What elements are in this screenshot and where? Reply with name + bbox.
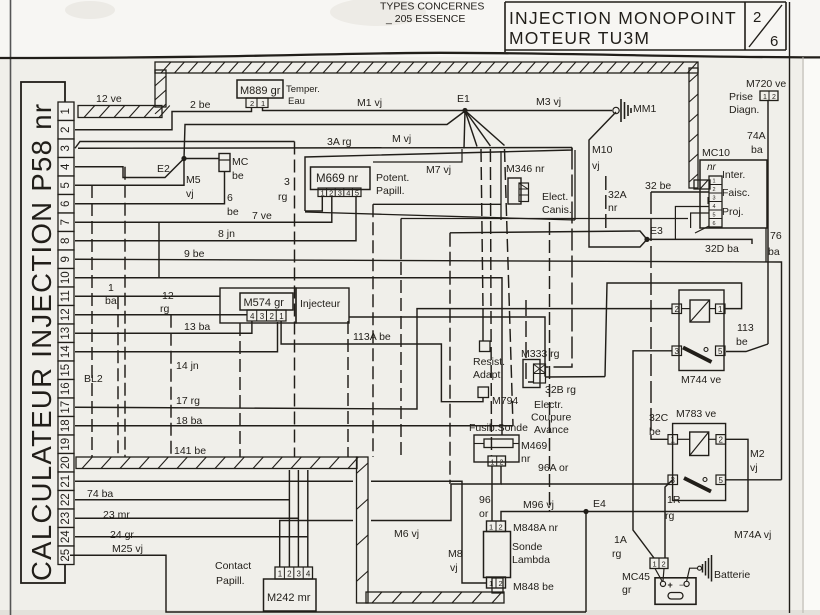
wire M1 vj M889 to E1 xyxy=(263,97,465,111)
svg-text:18: 18 xyxy=(60,419,72,432)
battery xyxy=(655,578,696,605)
wire 32D ba xyxy=(647,239,752,255)
thermal contact MC xyxy=(219,154,249,183)
wire 6 be MC to pin6 xyxy=(75,172,239,219)
crossing vertical x373 xyxy=(372,204,374,457)
wire M6 vj xyxy=(280,484,451,567)
svg-text:vj: vj xyxy=(750,462,758,474)
svg-text:4: 4 xyxy=(713,204,716,210)
svg-text:M848 be: M848 be xyxy=(513,581,554,593)
E1 fan wires xyxy=(464,111,505,149)
svg-text:32A: 32A xyxy=(608,189,627,201)
svg-text:1: 1 xyxy=(718,305,723,314)
wire 7 ve pin7 to M669 pin2 xyxy=(75,196,332,222)
M574 pin row xyxy=(247,310,286,321)
diagnostic socket M720 xyxy=(729,78,786,116)
svg-text:Potent.: Potent. xyxy=(376,172,409,184)
svg-text:Lambda: Lambda xyxy=(512,554,550,566)
title box xyxy=(505,2,786,52)
wire M744 pin1 to 32B xyxy=(605,283,742,377)
svg-text:19: 19 xyxy=(60,438,72,451)
wires MC45 to battery plus xyxy=(655,569,664,582)
wire 32 be xyxy=(645,180,709,192)
svg-text:96A or: 96A or xyxy=(538,462,569,474)
svg-text:2: 2 xyxy=(662,560,666,569)
svg-text:Canis.: Canis. xyxy=(542,204,572,216)
svg-text:24 gr: 24 gr xyxy=(110,529,134,541)
svg-text:1: 1 xyxy=(261,99,265,108)
relay M783 box xyxy=(673,424,726,501)
svg-text:2: 2 xyxy=(719,435,724,444)
svg-text:M744 ve: M744 ve xyxy=(681,374,721,386)
svg-text:2: 2 xyxy=(500,459,504,466)
svg-text:3: 3 xyxy=(713,196,716,202)
svg-text:M vj: M vj xyxy=(392,133,411,145)
svg-text:11: 11 xyxy=(60,290,72,302)
svg-text:Prise: Prise xyxy=(729,91,753,103)
M242 pin row xyxy=(275,567,313,579)
svg-text:nr: nr xyxy=(521,453,531,465)
svg-text:rg: rg xyxy=(278,191,287,203)
svg-text:1: 1 xyxy=(489,523,493,532)
ECU calculateur body box xyxy=(21,82,65,583)
svg-text:nr: nr xyxy=(707,162,717,173)
wire 9 be pin9 long run xyxy=(75,248,782,480)
crossing vertical x549 xyxy=(549,222,551,511)
svg-text:M783 ve: M783 ve xyxy=(676,408,716,420)
ground bus bottom horizontal to M848 xyxy=(366,578,504,603)
svg-text:nr: nr xyxy=(608,202,618,214)
ground MM1 xyxy=(613,99,657,122)
svg-text:Adapt.: Adapt. xyxy=(473,369,503,381)
svg-text:17: 17 xyxy=(60,401,72,414)
wire 3A rg pin3 run xyxy=(75,133,572,148)
wire M25 vj pin25 bottom run xyxy=(70,543,586,612)
resistor adaptation xyxy=(473,341,518,407)
svg-text:M848A nr: M848A nr xyxy=(513,522,558,534)
label 1A rg xyxy=(612,534,627,560)
potentiometer M669 xyxy=(311,167,371,190)
svg-text:14 jn: 14 jn xyxy=(176,360,199,372)
relay M744 pin2 xyxy=(672,304,682,314)
throttle switch M242 xyxy=(215,560,316,611)
svg-text:20: 20 xyxy=(60,456,72,469)
svg-text:M469: M469 xyxy=(521,440,547,452)
svg-text:1: 1 xyxy=(279,312,284,321)
svg-text:M25 vj: M25 vj xyxy=(112,543,143,555)
top ground bus horizontal xyxy=(155,62,698,73)
svg-text:2: 2 xyxy=(499,579,503,588)
label 32C be xyxy=(649,412,669,438)
ECU connector pin strip 1-25 xyxy=(58,102,74,565)
crossing wire vertical x171 xyxy=(170,315,172,457)
svg-text:M242 mr: M242 mr xyxy=(267,592,311,604)
svg-text:1: 1 xyxy=(713,179,716,185)
wire 23 mr pin23 to M242 pin3 xyxy=(75,470,298,567)
svg-text:M74A vj: M74A vj xyxy=(734,529,771,541)
svg-text:rg: rg xyxy=(665,510,674,522)
svg-text:M333 rg: M333 rg xyxy=(521,348,560,360)
top ground bus right vertical drop to MC10 xyxy=(689,68,710,189)
svg-text:+: + xyxy=(668,580,673,590)
svg-text:1: 1 xyxy=(489,579,493,588)
ECU label CALCULATEUR INJECTION P58 nr xyxy=(26,103,57,581)
wire pin4 to E2 xyxy=(75,159,184,178)
wire 24 gr pin24 to M242 pin4 xyxy=(75,470,308,567)
svg-text:Avance: Avance xyxy=(534,424,569,436)
svg-text:M2: M2 xyxy=(750,448,765,460)
svg-text:6: 6 xyxy=(227,192,233,204)
enclosure box potentiometer-canister xyxy=(305,148,575,221)
wire 12 rg pin12 to injector xyxy=(75,290,247,315)
svg-text:Contact: Contact xyxy=(215,560,251,572)
svg-text:ba: ba xyxy=(105,295,117,307)
svg-text:12: 12 xyxy=(60,308,72,321)
svg-text:M1 vj: M1 vj xyxy=(357,97,382,109)
svg-text:23 mr: 23 mr xyxy=(103,509,130,521)
svg-text:3: 3 xyxy=(260,312,265,321)
wire M333 lower pin feed xyxy=(526,300,534,382)
wire 8 jn pin8 to M669 pin5 xyxy=(75,196,356,241)
wire pin3 riser to M333 xyxy=(545,148,572,368)
svg-text:2: 2 xyxy=(772,94,776,101)
svg-text:2: 2 xyxy=(270,312,275,321)
svg-text:32 be: 32 be xyxy=(645,180,671,192)
page left border xyxy=(10,0,12,615)
labels Potent Papill xyxy=(376,172,409,197)
svg-text:13 ba: 13 ba xyxy=(184,321,210,333)
svg-text:1: 1 xyxy=(491,459,495,466)
svg-text:8: 8 xyxy=(60,238,72,244)
svg-text:9 be: 9 be xyxy=(184,248,205,260)
node E4 xyxy=(583,498,606,514)
svg-text:Temper.: Temper. xyxy=(286,84,320,95)
svg-text:_ 205 ESSENCE: _ 205 ESSENCE xyxy=(385,13,465,25)
svg-text:TYPES CONCERNES: TYPES CONCERNES xyxy=(380,1,484,13)
svg-text:M8: M8 xyxy=(448,548,463,560)
crossing vertical x92 xyxy=(91,185,93,457)
svg-text:4: 4 xyxy=(250,312,255,321)
svg-text:5: 5 xyxy=(718,347,723,356)
svg-text:74A: 74A xyxy=(747,130,766,142)
svg-text:2 be: 2 be xyxy=(190,99,211,111)
svg-text:14: 14 xyxy=(60,345,72,358)
ground bus 141 be horizontal xyxy=(76,445,358,469)
wire 74A ba diag to M744 pin5 xyxy=(726,101,768,352)
svg-text:MC45: MC45 xyxy=(622,571,650,583)
svg-text:1: 1 xyxy=(671,435,676,444)
svg-text:8 jn: 8 jn xyxy=(218,228,235,240)
svg-text:4: 4 xyxy=(60,163,72,170)
crossing vertical x240 xyxy=(239,323,241,457)
svg-text:6: 6 xyxy=(770,33,778,50)
wire E4 down to bottom xyxy=(585,512,587,613)
wire M96 vj xyxy=(501,499,748,521)
svg-text:M5: M5 xyxy=(186,174,201,186)
svg-text:141 be: 141 be xyxy=(174,445,206,457)
wire 74 ba pin22 to M242 pin2 xyxy=(75,470,289,567)
wire 17 rg pin17 to M744 pin2 xyxy=(75,309,672,409)
svg-text:74 ba: 74 ba xyxy=(87,488,113,500)
label M744 ve xyxy=(681,374,721,386)
connector MC45 xyxy=(622,558,668,596)
label M74A vj xyxy=(734,529,771,541)
wire 113A be xyxy=(281,321,483,402)
wire 18 ba pin18 to M333 xyxy=(75,415,513,427)
svg-text:32D ba: 32D ba xyxy=(705,243,739,255)
svg-text:4: 4 xyxy=(306,570,311,579)
connector M848A xyxy=(487,521,559,534)
relay M744 pin3 xyxy=(672,346,682,356)
node E1 xyxy=(457,93,470,113)
svg-text:5: 5 xyxy=(355,188,359,197)
relay M744 box xyxy=(679,290,724,371)
svg-text:5: 5 xyxy=(713,213,716,219)
svg-text:M574 gr: M574 gr xyxy=(244,297,285,309)
svg-text:be: be xyxy=(736,336,748,348)
crossing vertical x125 xyxy=(124,167,126,457)
label MC10 nr xyxy=(702,147,730,173)
svg-text:MC: MC xyxy=(232,156,249,168)
temp sensor M889 xyxy=(237,80,320,108)
wire pin10 xyxy=(75,222,502,435)
svg-text:be: be xyxy=(227,206,239,218)
svg-text:3: 3 xyxy=(675,347,680,356)
svg-text:rg: rg xyxy=(160,303,169,315)
svg-text:2: 2 xyxy=(60,127,72,133)
wire 32be vertical to M783 xyxy=(651,192,668,439)
svg-text:M794: M794 xyxy=(492,395,518,407)
svg-text:Elect.: Elect. xyxy=(542,191,568,203)
wire M2 vj loop xyxy=(726,439,782,511)
svg-text:2: 2 xyxy=(250,99,254,108)
header rule xyxy=(0,53,820,58)
svg-text:be: be xyxy=(649,426,661,438)
svg-text:E3: E3 xyxy=(650,225,663,237)
svg-text:vj: vj xyxy=(186,188,194,200)
wire to E3 upper xyxy=(450,231,647,239)
wire 3 rg vertical xyxy=(278,142,295,458)
svg-text:M720 ve: M720 ve xyxy=(746,78,786,90)
svg-text:M10: M10 xyxy=(592,144,613,156)
svg-text:5: 5 xyxy=(60,182,72,188)
relay M783 switch xyxy=(684,478,711,492)
svg-text:4: 4 xyxy=(346,188,350,197)
svg-text:M669 nr: M669 nr xyxy=(316,173,358,185)
svg-text:1A: 1A xyxy=(614,534,627,546)
svg-text:113A be: 113A be xyxy=(353,331,391,343)
svg-text:CALCULATEUR INJECTION P58 nr: CALCULATEUR INJECTION P58 nr xyxy=(26,103,57,581)
svg-text:rg: rg xyxy=(612,548,621,560)
wire 32B rg M333 to riser xyxy=(545,377,605,396)
crossing vertical x491 xyxy=(490,149,491,456)
wire injector box to M333 area xyxy=(349,317,545,377)
svg-text:2: 2 xyxy=(329,188,333,197)
svg-text:Electr.: Electr. xyxy=(534,399,563,411)
svg-text:or: or xyxy=(479,508,489,520)
crossing vertical x450 xyxy=(449,233,451,484)
relay M783 coil links xyxy=(678,438,717,440)
svg-text:3: 3 xyxy=(60,145,72,151)
svg-text:−: − xyxy=(679,580,684,590)
svg-text:M3 vj: M3 vj xyxy=(536,96,561,108)
wire pin5 M5 vj to E2 xyxy=(75,159,201,201)
svg-text:5: 5 xyxy=(719,476,724,485)
svg-text:Papill.: Papill. xyxy=(216,575,245,587)
svg-text:E1: E1 xyxy=(457,93,470,105)
svg-text:96: 96 xyxy=(479,494,491,506)
node E3 xyxy=(644,225,663,242)
svg-text:M889 gr: M889 gr xyxy=(240,85,281,97)
svg-text:3: 3 xyxy=(338,188,342,197)
M669 pin1 wire xyxy=(305,197,322,212)
svg-text:12: 12 xyxy=(162,290,174,302)
M669 pin row 1-5 xyxy=(318,188,361,197)
relay M744 coil links xyxy=(682,308,716,310)
relay M744 coil xyxy=(690,300,710,322)
svg-text:22: 22 xyxy=(60,493,72,506)
svg-text:ba: ba xyxy=(751,144,763,156)
wire 14 jn pin14 xyxy=(75,322,278,372)
module M333 electr coupure avance xyxy=(521,348,571,436)
svg-text:ba: ba xyxy=(768,246,780,258)
connector MC10 pin strip xyxy=(709,176,722,227)
svg-text:16: 16 xyxy=(60,382,72,395)
svg-text:Diagn.: Diagn. xyxy=(729,104,759,116)
node E2 xyxy=(157,156,187,175)
relay M783 pin3 xyxy=(668,475,678,485)
svg-text:Batterie: Batterie xyxy=(714,569,750,581)
wire 32A nr xyxy=(606,176,627,231)
wire 2 be pin2 to M889 xyxy=(75,99,252,130)
ground bus 141 be vertical xyxy=(357,457,369,603)
svg-text:9: 9 xyxy=(60,256,72,262)
interface box Inter Faisc Proj xyxy=(700,160,767,228)
connector stubs left of strip xyxy=(401,197,709,239)
svg-text:E4: E4 xyxy=(593,498,606,510)
svg-text:6: 6 xyxy=(713,221,716,227)
relay M783 pin5 xyxy=(716,475,726,485)
wire E2 to MC xyxy=(184,158,219,160)
relay M744 pin1 xyxy=(716,304,726,314)
wire 76 ba xyxy=(766,228,782,262)
crossing vertical x348 from M574 xyxy=(347,321,349,457)
svg-text:1: 1 xyxy=(60,108,72,114)
svg-text:18 ba: 18 ba xyxy=(176,415,202,427)
zone label BL2 xyxy=(84,373,103,385)
wire canister hook xyxy=(373,203,501,205)
page number box 2/6 xyxy=(745,2,786,50)
battery ground xyxy=(687,555,751,582)
svg-text:6: 6 xyxy=(60,201,72,207)
relay M744 switch xyxy=(683,348,712,363)
svg-text:3: 3 xyxy=(284,176,290,188)
svg-text:Sonde: Sonde xyxy=(512,541,543,553)
svg-text:gr: gr xyxy=(622,584,632,596)
wire 96 or fuse to lambda xyxy=(479,466,492,521)
wire 13 ba pin13 to injector pin4 xyxy=(75,321,252,333)
svg-text:MOTEUR TU3M: MOTEUR TU3M xyxy=(509,28,650,48)
svg-text:15: 15 xyxy=(60,364,72,377)
svg-text:Coupure: Coupure xyxy=(531,412,571,424)
svg-text:7 ve: 7 ve xyxy=(252,210,272,222)
label M783 ve xyxy=(676,408,716,420)
svg-text:BL2: BL2 xyxy=(84,373,103,385)
svg-text:Faisc.: Faisc. xyxy=(722,187,750,199)
svg-text:7: 7 xyxy=(60,219,72,225)
svg-text:13: 13 xyxy=(60,327,72,340)
svg-text:2: 2 xyxy=(713,187,716,193)
svg-text:3: 3 xyxy=(297,570,302,579)
wire 96A or xyxy=(451,462,668,484)
svg-text:Papill.: Papill. xyxy=(376,185,405,197)
svg-text:Inter.: Inter. xyxy=(722,169,745,181)
svg-text:Fusib.Sonde: Fusib.Sonde xyxy=(469,422,528,434)
wire 9be branch to canister xyxy=(400,219,402,260)
injector enclosure xyxy=(220,288,349,323)
connector M848 xyxy=(487,577,555,593)
svg-text:2: 2 xyxy=(675,305,680,314)
wire M744 pin3 feed xyxy=(633,351,672,558)
svg-text:2: 2 xyxy=(753,9,761,26)
svg-text:1: 1 xyxy=(108,282,114,294)
svg-text:M7 vj: M7 vj xyxy=(426,164,451,176)
label M7 vj xyxy=(373,149,462,176)
wire M8 vj pin21 to M848 xyxy=(75,481,487,583)
svg-text:1: 1 xyxy=(278,570,283,579)
svg-text:17 rg: 17 rg xyxy=(176,395,200,407)
svg-text:32C: 32C xyxy=(649,412,669,424)
crossing vertical x401 xyxy=(400,262,402,457)
svg-text:24: 24 xyxy=(60,530,72,543)
relay M783 pin1 xyxy=(668,435,678,445)
svg-text:23: 23 xyxy=(60,512,72,525)
svg-text:Injecteur: Injecteur xyxy=(300,298,341,310)
svg-text:vj: vj xyxy=(592,160,600,172)
svg-text:12 ve: 12 ve xyxy=(96,93,122,105)
wire M3 vj E1 to MM1 xyxy=(465,96,612,111)
svg-text:10: 10 xyxy=(60,271,72,284)
svg-text:2: 2 xyxy=(287,570,292,579)
relay M744 pin5 xyxy=(716,346,726,356)
svg-text:vj: vj xyxy=(450,562,458,574)
svg-text:MC10: MC10 xyxy=(702,147,730,159)
ground bus 12 ve from pin 1 xyxy=(78,70,170,118)
svg-text:E2: E2 xyxy=(157,163,170,175)
svg-text:21: 21 xyxy=(60,475,72,488)
header text TYPES CONCERNES xyxy=(380,1,484,26)
wire resist adapt riser xyxy=(481,149,483,341)
wire M10 vj MM1 to E3 xyxy=(589,112,647,247)
svg-text:1: 1 xyxy=(653,560,657,569)
relay M783 pin2 xyxy=(716,435,726,445)
wire E2 to E1 xyxy=(184,111,465,159)
relay M783 coil xyxy=(690,432,709,456)
svg-text:3A rg: 3A rg xyxy=(327,136,352,148)
lambda sensor body xyxy=(484,532,551,578)
svg-text:Resist.: Resist. xyxy=(473,356,505,368)
svg-text:76: 76 xyxy=(770,230,782,242)
fuse box fusib sonde xyxy=(469,422,547,466)
wire 18ba riser xyxy=(505,149,514,426)
svg-text:113: 113 xyxy=(737,322,754,334)
svg-text:1: 1 xyxy=(763,94,767,101)
page right border xyxy=(790,2,804,613)
svg-text:be: be xyxy=(232,170,244,182)
svg-text:Proj.: Proj. xyxy=(722,206,744,218)
canister valve M346 xyxy=(506,163,572,216)
wire 1R rg xyxy=(665,480,681,558)
